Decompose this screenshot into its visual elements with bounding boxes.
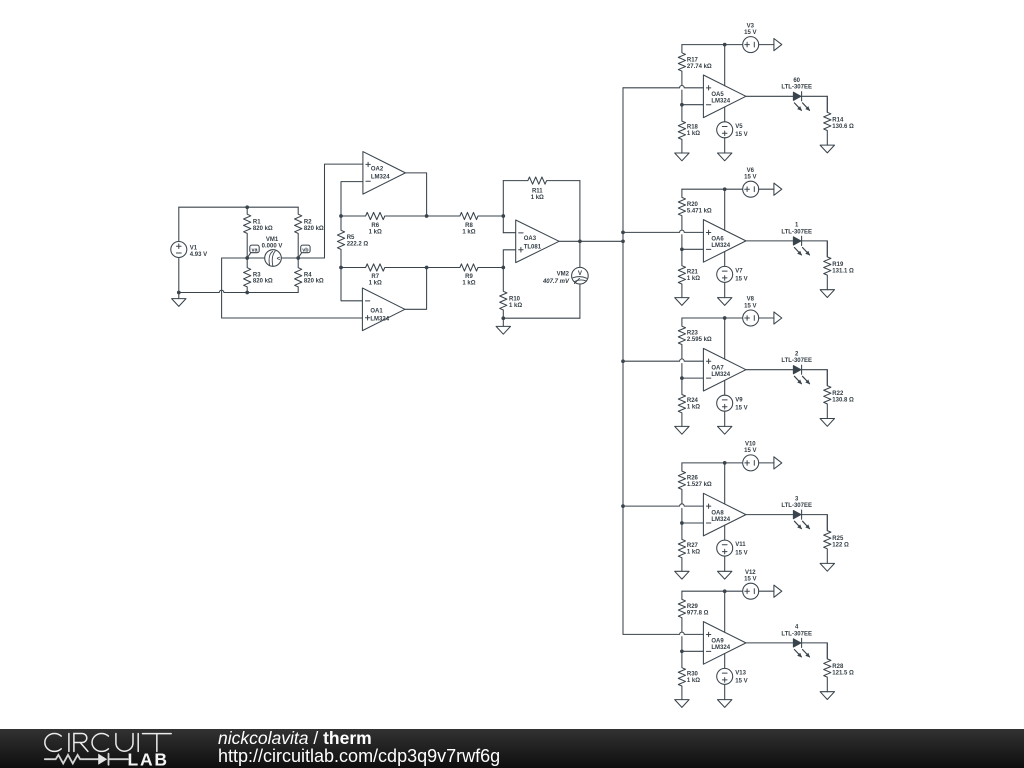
svg-text:V7: V7 (735, 269, 743, 275)
label V5 15 V (735, 124, 747, 138)
junction OA3 output to bus (621, 239, 625, 243)
wire to ground (724, 138, 726, 153)
svg-text:V13: V13 (735, 671, 746, 677)
junction node vb (296, 256, 300, 260)
wire OA9 - input (682, 650, 704, 652)
junction (177, 291, 181, 295)
svg-text:VM2: VM2 (557, 272, 570, 278)
svg-text:R2: R2 (304, 219, 312, 225)
resistor R29 (678, 591, 685, 632)
svg-text:V11: V11 (735, 542, 746, 548)
ground (675, 571, 689, 579)
voltmeter VM1 (265, 250, 282, 267)
svg-text:R19: R19 (832, 262, 844, 268)
svg-text:122 Ω: 122 Ω (832, 542, 849, 548)
label R9 1 kΩ (462, 274, 475, 287)
logo letter C (45, 734, 61, 752)
voltage source V6 (743, 181, 759, 197)
label R25 122 Ω (832, 536, 849, 549)
resistor R25 (824, 515, 831, 564)
op-amp OA8 (703, 493, 746, 536)
ground (820, 145, 834, 153)
svg-text:va: va (251, 247, 258, 253)
wire bus to OA8 + input with hop (623, 504, 703, 506)
junction node va (245, 256, 249, 260)
ground (718, 153, 732, 161)
label V3 15 V (744, 23, 756, 36)
wire vb to OA2 + input (298, 164, 363, 258)
svg-text:1 kΩ: 1 kΩ (509, 303, 522, 309)
output port flag (774, 312, 782, 324)
svg-text:407.7 mV: 407.7 mV (542, 279, 570, 285)
svg-text:1 kΩ: 1 kΩ (687, 131, 700, 137)
svg-text:R9: R9 (465, 274, 473, 280)
svg-text:130.6 Ω: 130.6 Ω (832, 124, 854, 130)
voltage source V8 (743, 310, 759, 326)
logo letter U (116, 734, 133, 752)
wire feedback left (502, 181, 504, 233)
voltage source V10 (743, 455, 759, 471)
svg-text:OA1: OA1 (370, 309, 383, 315)
junction (245, 205, 249, 209)
svg-text:LAB: LAB (128, 750, 169, 768)
label R24 1 kΩ (687, 398, 700, 411)
op-amp OA1 (362, 288, 405, 331)
op-amp OA3 (516, 220, 559, 263)
svg-text:15 V: 15 V (735, 679, 747, 685)
wire supply top (682, 317, 743, 319)
wire to output port (759, 44, 774, 46)
voltage source V7 (717, 266, 733, 282)
label V7 15 V (735, 269, 747, 283)
junction (425, 214, 429, 218)
svg-text:OA2: OA2 (371, 167, 384, 173)
svg-text:5.471 kΩ: 5.471 kΩ (687, 208, 712, 214)
voltmeter VM2 branch bottom (579, 284, 581, 318)
svg-text:15 V: 15 V (735, 550, 747, 556)
wire OA5 output (746, 95, 794, 97)
OA9 V+ pin (724, 591, 726, 632)
ground (718, 298, 732, 306)
label V11 15 V (735, 542, 747, 556)
resistor R24 (678, 378, 685, 426)
wire OA7 output (746, 369, 794, 371)
wire divider node (681, 508, 683, 523)
junction (245, 291, 249, 295)
label OA2 LM324 (371, 167, 390, 181)
svg-text:15 V: 15 V (735, 405, 747, 411)
svg-text:15 V: 15 V (735, 277, 747, 283)
junction (723, 43, 727, 47)
svg-text:LM324: LM324 (711, 372, 730, 378)
svg-text:LM324: LM324 (371, 175, 390, 181)
ground (675, 700, 689, 708)
wire OA6 output (746, 240, 794, 242)
resistor R18 (678, 105, 685, 153)
voltage source V3 (743, 37, 759, 53)
svg-text:TL081: TL081 (524, 244, 542, 250)
label R30 1 kΩ (687, 671, 700, 684)
label LED 2 LTL-307EE (781, 351, 812, 364)
svg-text:R21: R21 (687, 269, 699, 275)
label V8 15 V (744, 297, 756, 310)
svg-text:R11: R11 (532, 189, 543, 195)
resistor R20 (678, 189, 685, 230)
label R19 131.1 Ω (832, 262, 854, 275)
resistor R21 (678, 249, 685, 297)
voltage source V11 (717, 540, 733, 556)
junction (723, 461, 727, 465)
junction bus tap (621, 359, 625, 363)
op-amp OA9 (703, 622, 746, 665)
svg-text:LTL-307EE: LTL-307EE (781, 503, 812, 509)
OA6 V+ pin (724, 189, 726, 230)
resistor R11 feedback (503, 177, 580, 184)
LED 4 LTL-307EE (793, 638, 810, 657)
label VM2 407.7 mV (542, 272, 570, 286)
label V10 15 V (744, 442, 756, 455)
OA5 V+ pin (724, 45, 726, 86)
svg-text:R25: R25 (832, 536, 844, 542)
svg-text:R17: R17 (687, 57, 699, 63)
wire supply top (682, 590, 743, 592)
wire to output port (759, 590, 774, 592)
label R17 27.74 kΩ (687, 57, 712, 70)
resistor R27 (678, 523, 685, 571)
resistor R3 (244, 258, 251, 293)
wire divider node (681, 235, 683, 250)
svg-text:V3: V3 (747, 23, 755, 29)
wire OA6 - input (682, 248, 704, 250)
label LED 60 LTL-307EE (781, 78, 812, 91)
svg-text:OA3: OA3 (524, 236, 537, 242)
svg-text:LM324: LM324 (711, 243, 730, 249)
svg-text:LTL-307EE: LTL-307EE (781, 229, 812, 235)
resistor R26 (678, 463, 685, 504)
junction (723, 187, 727, 191)
OA8 V+ pin (724, 463, 726, 504)
svg-text:R8: R8 (465, 223, 473, 229)
label R6 1 kΩ (369, 223, 382, 236)
junction (501, 266, 505, 270)
svg-text:LM324: LM324 (711, 517, 730, 523)
resistor R30 (678, 651, 685, 699)
label V13 15 V (735, 671, 747, 685)
label R11 1 kΩ (531, 189, 544, 202)
svg-text:R27: R27 (687, 543, 699, 549)
label R20 5.471 kΩ (687, 202, 712, 215)
svg-text:15 V: 15 V (735, 132, 747, 138)
wire to ground (724, 684, 726, 699)
label OA3 TL081 (524, 236, 542, 250)
resistor R17 (678, 45, 685, 86)
svg-text:V5: V5 (735, 124, 743, 130)
label LED 1 LTL-307EE (781, 223, 812, 236)
svg-text:1 kΩ: 1 kΩ (687, 405, 700, 411)
resistor R5 (337, 216, 344, 268)
wire supply top (682, 188, 743, 190)
label R28 121.5 Ω (832, 664, 854, 677)
svg-text:1 kΩ: 1 kΩ (687, 276, 700, 282)
wire bus to OA7 + input with hop (623, 359, 703, 361)
resistor R9 (427, 264, 504, 271)
label R22 130.8 Ω (832, 391, 854, 404)
svg-text:R23: R23 (687, 331, 699, 337)
wire OA3 output (559, 240, 623, 242)
label R29 977.8 Ω (687, 604, 709, 617)
wire bridge top (179, 206, 298, 208)
wire voltmeter to vb (281, 257, 298, 259)
output port flag (774, 183, 782, 195)
ground (496, 318, 510, 334)
wire OA8 output (746, 514, 794, 516)
schematic title and url (218, 729, 500, 765)
wire feedback right (579, 181, 581, 242)
svg-text:OA8: OA8 (711, 510, 724, 516)
wire to ground (724, 411, 726, 426)
svg-text:LM324: LM324 (711, 645, 730, 651)
resistor R2 (295, 207, 302, 258)
CircuitLab logo (40, 729, 220, 768)
logo letter T (143, 734, 172, 752)
wire divider node (681, 90, 683, 105)
ground (718, 571, 732, 579)
LED 60 LTL-307EE (793, 92, 810, 111)
junction (680, 649, 684, 653)
svg-text:OA9: OA9 (711, 639, 724, 645)
svg-text:4.93 V: 4.93 V (190, 252, 207, 258)
label R4 820 kΩ (304, 272, 324, 284)
svg-text:1 kΩ: 1 kΩ (462, 281, 475, 287)
wire supply top (682, 462, 743, 464)
label R5 222.2 Ω (347, 235, 369, 247)
wire LED to resistor (802, 96, 828, 112)
op-amp OA5 (703, 75, 746, 118)
label V6 15 V (744, 168, 756, 181)
wire LED to resistor (802, 643, 828, 659)
resistor R6 (341, 212, 427, 219)
OA5 V- pin (724, 107, 726, 122)
output port flag (774, 457, 782, 469)
resistor R19 (824, 241, 831, 290)
resistor R7 (341, 264, 427, 271)
junction (501, 316, 505, 320)
svg-text:3: 3 (795, 496, 799, 502)
svg-text:820 kΩ: 820 kΩ (253, 279, 273, 285)
op-amp OA2 (363, 152, 406, 195)
wire OA2 - input (341, 182, 363, 216)
junction (680, 521, 684, 525)
label OA1 LM324 (370, 309, 389, 323)
svg-text:V10: V10 (745, 442, 756, 448)
wire comparator input bus (622, 88, 624, 635)
ground (172, 293, 186, 307)
svg-text:OA7: OA7 (711, 365, 724, 371)
label R2 820 kΩ (304, 219, 324, 231)
svg-text:R14: R14 (832, 118, 844, 124)
label R1 820 kΩ (253, 219, 273, 231)
resistor R14 (824, 96, 831, 145)
svg-text:V9: V9 (735, 397, 743, 403)
svg-text:820 kΩ: 820 kΩ (304, 226, 324, 232)
label R21 1 kΩ (687, 269, 700, 282)
voltage source V1 (171, 207, 187, 292)
junction (339, 266, 343, 270)
wire to output port (759, 188, 774, 190)
resistor R23 (678, 318, 685, 359)
label R3 820 kΩ (253, 272, 273, 284)
wire to output port (759, 317, 774, 319)
voltmeter VM2 branch top (579, 241, 581, 267)
junction bus tap (621, 504, 625, 508)
junction bus tap (621, 231, 625, 235)
voltmeter VM2 (572, 267, 589, 284)
wire OA2 output (405, 173, 426, 216)
svg-text:R26: R26 (687, 476, 699, 482)
svg-text:0.000 V: 0.000 V (262, 243, 283, 249)
svg-text:LTL-307EE: LTL-307EE (781, 85, 812, 91)
svg-text:R29: R29 (687, 604, 699, 610)
wire va to OA1 + input (222, 258, 363, 318)
svg-text:121.5 Ω: 121.5 Ω (832, 671, 854, 677)
label LED 4 LTL-307EE (781, 625, 812, 638)
voltage source V5 (717, 122, 733, 138)
wire LED to resistor (802, 241, 828, 257)
svg-text:R30: R30 (687, 671, 699, 677)
resistor R8 (427, 212, 504, 219)
svg-text:<: < (277, 255, 281, 262)
op-amp OA7 (703, 348, 746, 391)
LED 2 LTL-307EE (793, 365, 810, 384)
junction (723, 316, 727, 320)
label R18 1 kΩ (687, 125, 700, 138)
OA7 V- pin (724, 380, 726, 395)
node vb tag (298, 245, 310, 258)
OA9 V- pin (724, 654, 726, 669)
wire R10 to VM2 bottom (503, 317, 580, 319)
label VM1 0.000 V (262, 237, 283, 249)
ground (718, 700, 732, 708)
wire bus to OA9 + input with hop (623, 632, 703, 634)
junction (339, 214, 343, 218)
footer bar (0, 729, 1024, 768)
resistor R4 (295, 258, 302, 293)
svg-text:R7: R7 (371, 274, 379, 280)
LED 3 LTL-307EE (793, 510, 810, 529)
svg-text:1 kΩ: 1 kΩ (687, 550, 700, 556)
svg-text:R1: R1 (253, 219, 261, 225)
wire to ground (724, 282, 726, 297)
svg-text:R22: R22 (832, 391, 844, 397)
wire OA1 - input (341, 268, 362, 301)
wire to ground (724, 556, 726, 571)
logo letter I (137, 734, 139, 752)
junction (578, 239, 582, 243)
ground (820, 692, 834, 700)
wire OA3 + input (503, 250, 515, 268)
svg-text:vb: vb (302, 247, 309, 253)
logo letter R (74, 734, 88, 752)
label V9 15 V (735, 397, 747, 411)
svg-text:15 V: 15 V (744, 577, 756, 583)
svg-text:R18: R18 (687, 125, 699, 131)
svg-text:R20: R20 (687, 202, 699, 208)
logo letter C (92, 734, 108, 752)
wire OA3 - input (503, 232, 515, 234)
label R14 130.6 Ω (832, 118, 854, 131)
label R23 2.595 kΩ (687, 331, 712, 344)
svg-text:977.8 Ω: 977.8 Ω (687, 610, 709, 616)
svg-text:130.8 Ω: 130.8 Ω (832, 398, 854, 404)
junction (501, 214, 505, 218)
logo resistor-diode glyph (45, 754, 128, 765)
label OA8 LM324 (711, 510, 730, 523)
wire OA5 - input (682, 104, 704, 106)
svg-text:27.74 kΩ: 27.74 kΩ (687, 64, 712, 70)
ground (675, 298, 689, 306)
OA7 V+ pin (724, 318, 726, 359)
svg-text:R10: R10 (509, 296, 521, 302)
wire bridge bottom with hop (179, 290, 298, 292)
wire LED to resistor (802, 370, 828, 386)
svg-text:R6: R6 (371, 223, 379, 229)
svg-text:1.527 kΩ: 1.527 kΩ (687, 482, 712, 488)
svg-text:OA6: OA6 (711, 237, 724, 243)
svg-text:4: 4 (795, 625, 799, 631)
svg-text:1 kΩ: 1 kΩ (369, 281, 382, 287)
svg-text:15 V: 15 V (744, 175, 756, 181)
wire bus to OA6 + input with hop (623, 230, 703, 232)
label OA9 LM324 (711, 639, 730, 652)
node va tag (247, 245, 259, 258)
label V12 15 V (744, 570, 756, 583)
ground (820, 419, 834, 427)
wire OA1 output (405, 268, 427, 310)
svg-text:1: 1 (795, 223, 799, 229)
junction (723, 589, 727, 593)
LED 1 LTL-307EE (793, 236, 810, 255)
svg-text:2.595 kΩ: 2.595 kΩ (687, 337, 712, 343)
ground (718, 426, 732, 434)
svg-text:1 kΩ: 1 kΩ (369, 229, 382, 235)
output port flag (774, 39, 782, 51)
svg-text:LM324: LM324 (370, 317, 389, 323)
wire OA8 - input (682, 522, 704, 524)
label V1 4.93 V (190, 245, 207, 257)
svg-text:V1: V1 (190, 245, 198, 251)
label R27 1 kΩ (687, 543, 700, 556)
svg-text:1 kΩ: 1 kΩ (687, 678, 700, 684)
op-amp OA6 (703, 220, 746, 263)
wire bus to OA5 + input with hop (623, 85, 703, 87)
svg-text:60: 60 (793, 78, 800, 84)
label R10 1 kΩ (509, 296, 522, 309)
wire to output port (759, 462, 774, 464)
svg-text:V6: V6 (747, 168, 755, 174)
svg-text:1 kΩ: 1 kΩ (462, 229, 475, 235)
wire OA9 output (746, 642, 794, 644)
svg-text:15 V: 15 V (744, 448, 756, 454)
OA6 V- pin (724, 252, 726, 267)
svg-text:15 V: 15 V (744, 30, 756, 36)
svg-text:LM324: LM324 (711, 99, 730, 105)
svg-text:820 kΩ: 820 kΩ (253, 226, 273, 232)
svg-text:1 kΩ: 1 kΩ (531, 195, 544, 201)
svg-text:R5: R5 (347, 235, 355, 241)
svg-text:R24: R24 (687, 398, 699, 404)
output port flag (774, 585, 782, 597)
svg-text:2: 2 (795, 351, 799, 357)
